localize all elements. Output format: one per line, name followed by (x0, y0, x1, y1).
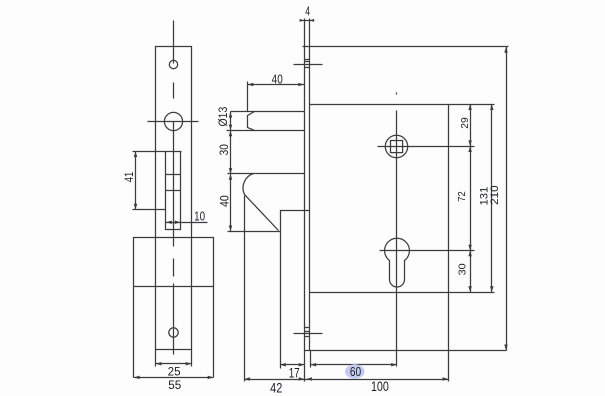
left view spindle hole horizontal centerline (148, 121, 199, 123)
bottom dims 42 left extension (244, 196, 246, 382)
left view bolt rectangle (166, 152, 181, 230)
svg-text:30: 30 (457, 263, 469, 275)
latch bolt top edge (231, 111, 305, 113)
dimension 41 line (135, 152, 137, 210)
left view inner plate lines lower (156, 238, 192, 350)
dim 30 right arrows (468, 251, 472, 257)
dim 30 left arrows (229, 131, 233, 137)
svg-text:10: 10 (194, 208, 205, 223)
dimension 210 line (506, 47, 508, 351)
dim 40 top arrows (248, 83, 254, 87)
dim 17 arrows (280, 363, 286, 367)
dim 41 arrows (134, 151, 138, 157)
dim o13 arrows (229, 112, 233, 118)
svg-text:29: 29 (459, 117, 471, 129)
svg-text:41: 41 (122, 172, 136, 183)
dim 100 arrows (306, 377, 312, 381)
left view centerline dash (173, 83, 175, 99)
hook bolt step (281, 211, 310, 232)
spindle horizontal centerline (378, 146, 475, 148)
svg-text:25: 25 (168, 365, 181, 379)
svg-text:42: 42 (270, 379, 282, 395)
dim 72 arrows (468, 146, 472, 152)
right view top screw hole centerline (294, 64, 323, 66)
spindle hub circle (385, 135, 407, 157)
left dimension stack line (230, 112, 232, 232)
dimension 17 line (281, 364, 305, 366)
highlight behind 60 (345, 364, 365, 378)
svg-text:4: 4 (305, 5, 310, 19)
svg-text:60: 60 (350, 365, 361, 379)
latch bolt nose (248, 112, 255, 131)
latch bolt bottom edge (227, 130, 305, 132)
hook bolt nose arc and bevel (243, 174, 278, 231)
bottom dims strip left face extension (304, 351, 306, 382)
dimension 40 top extension line (247, 82, 249, 112)
right view faceplate strip (305, 19, 310, 351)
svg-text:17: 17 (289, 366, 300, 381)
cylinder horizontal centerline (380, 250, 475, 252)
dimension 60 line (311, 364, 397, 366)
lock case right edge and 100 extension (448, 105, 450, 382)
left view bolt inner line 1 (166, 174, 181, 176)
right view top screw hole ticks (305, 60, 310, 68)
right view bottom screw hole centerline (294, 333, 323, 335)
euro cylinder profile (385, 238, 410, 287)
dim 10 arrows (166, 220, 172, 224)
dimension 40 top line (248, 84, 305, 86)
left view faceplate outline (156, 47, 192, 238)
left view lower screw hole (169, 328, 178, 337)
dim 29 arrows (468, 104, 472, 110)
svg-text:30: 30 (217, 144, 231, 155)
left view body bottom line with 55 dimension (134, 377, 214, 379)
strip bottom and 210 bottom extension (305, 350, 507, 352)
dimension 4 line (301, 20, 314, 22)
left view bolt inner line 2 (166, 190, 181, 192)
svg-text:100: 100 (371, 378, 389, 394)
dim 25 arrows (156, 362, 162, 366)
dim 4 arrows (300, 19, 305, 22)
hook bolt top edge (228, 173, 305, 175)
dimension 25 extension lines (156, 350, 192, 367)
dimension 41 bottom extension (133, 209, 166, 211)
svg-text:210: 210 (489, 185, 501, 205)
dim 210 arrows (504, 47, 508, 53)
dimension 42 and 100 line (245, 379, 449, 381)
dim 55 arrows (134, 376, 140, 380)
dim 131 arrows (490, 104, 494, 110)
svg-text:40: 40 (217, 195, 231, 207)
right view bottom screw hole ticks (305, 328, 310, 337)
lock case bottom line 131 extension (310, 292, 495, 294)
bottom dims 17 extension and step (280, 232, 282, 369)
right view strip top edge and 210 top extension (303, 46, 509, 48)
lock case top edge (310, 104, 495, 106)
left view body divider line (134, 286, 214, 288)
left view top centerline (173, 21, 175, 64)
left view top screw hole (169, 60, 177, 68)
spindle hub square (391, 141, 403, 153)
left view lower centerline segments (173, 259, 175, 355)
dimension 25 line (156, 363, 192, 365)
dimension 10 line (166, 222, 208, 224)
svg-text:72: 72 (456, 191, 468, 202)
svg-text:55: 55 (168, 378, 181, 392)
dimension 131 line (491, 105, 493, 293)
left view spindle hole circle (164, 112, 182, 130)
svg-text:Ø13: Ø13 (218, 107, 230, 127)
dim 40 left arrows (229, 174, 233, 180)
dim 42 arrows (245, 377, 251, 381)
left view bolt centerline (173, 122, 175, 247)
bottom dims strip right face extension (310, 351, 312, 368)
left view bolt top edge and 41 extension (133, 151, 182, 153)
right dims stacked line 29 72 30 (470, 105, 472, 293)
dim 60 arrows (311, 363, 317, 367)
spindle vertical centerline (396, 93, 398, 367)
left view body rectangle (134, 238, 214, 378)
hook bolt bottom extension line (228, 231, 281, 233)
svg-text:40: 40 (272, 72, 283, 87)
